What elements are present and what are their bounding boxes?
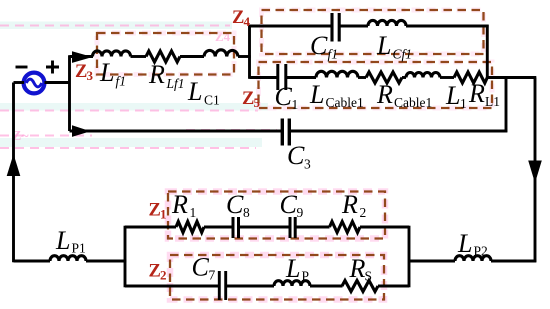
wire source left (14, 81, 25, 84)
resistor R1 (176, 222, 204, 233)
wire C7-LP (226, 285, 274, 288)
svg-text:Lf1: Lf1 (166, 76, 185, 91)
ghost pink halo Z4 (262, 10, 484, 54)
wire LP2 to right edge (491, 260, 536, 263)
svg-text:R: R (468, 79, 485, 108)
svg-text:R: R (148, 60, 165, 89)
svg-text:8: 8 (243, 205, 250, 220)
resistor RS (342, 281, 378, 292)
wire C1-LCable1 (286, 76, 317, 79)
capacitor C1 (278, 64, 286, 90)
ghost pink dashed line top (0, 25, 230, 27)
ghost pink halo Z5 (259, 62, 493, 108)
wire LP-RS (310, 285, 343, 288)
resistor R2 (330, 222, 361, 233)
svg-text:R: R (376, 80, 393, 109)
svg-text:Cf1: Cf1 (393, 47, 413, 62)
box Z4 (262, 10, 484, 54)
resistor RL1 (454, 72, 487, 83)
resistor RLf1 (146, 51, 180, 62)
wire join vertical (408, 226, 411, 288)
wire Z4 right vertical (486, 25, 489, 79)
ghost pink dashed line mid2 (0, 130, 277, 136)
capacitor C3 (282, 119, 289, 146)
wire R1-C8 (204, 226, 233, 229)
arrow down right (528, 161, 542, 184)
wire C3 riser (505, 76, 508, 132)
inductor LP2 (455, 256, 491, 261)
wire LCf1 right (406, 25, 489, 28)
ghost cyan band mid1 (0, 103, 268, 111)
svg-text:f1: f1 (328, 47, 339, 62)
wire Z5 rail left (250, 76, 279, 79)
svg-text:L: L (285, 254, 300, 283)
wire split vertical (124, 226, 127, 288)
arrow up left (7, 154, 21, 176)
ghost pink dashed line mid3 (0, 147, 256, 149)
svg-text:P: P (302, 269, 310, 284)
svg-text:S: S (365, 269, 373, 284)
inductor LP (274, 281, 310, 286)
svg-text:L1: L1 (485, 94, 500, 109)
ghost cyan band top (0, 22, 232, 30)
wire LP1 to split (86, 260, 126, 263)
box Z2 (170, 255, 384, 300)
wire R2 to join (360, 226, 409, 229)
svg-text:C: C (287, 141, 305, 170)
label plus (46, 61, 59, 74)
svg-text:C1: C1 (204, 93, 220, 108)
wire RS to join (378, 285, 409, 288)
svg-text:Cable1: Cable1 (326, 95, 364, 110)
inductor LC1 (204, 50, 238, 57)
wire bottom left rail (14, 260, 51, 263)
svg-text:1: 1 (292, 97, 299, 112)
wire L1-RL1 (440, 76, 454, 79)
wire junction vertical left (248, 25, 251, 79)
svg-text:Z: Z (232, 8, 244, 28)
svg-text:Cable1: Cable1 (394, 95, 432, 110)
wire lower rail to C3 (90, 130, 283, 133)
box Z1 (168, 192, 385, 239)
svg-text:L: L (457, 229, 472, 258)
svg-text:R: R (171, 190, 188, 219)
svg-text:2: 2 (360, 205, 367, 220)
box Z3 (97, 33, 234, 75)
wire left vertical (12, 83, 15, 263)
arrow right top (72, 51, 93, 63)
ghost pink halo Z2 (170, 255, 384, 300)
wire Cf1-LCf1 (339, 25, 368, 28)
wire C8-C9 (239, 226, 291, 229)
svg-text:C: C (226, 190, 244, 219)
svg-text:7: 7 (209, 268, 216, 283)
inductor LCable1 (316, 71, 358, 77)
ghost pink halo Z3 (97, 33, 234, 75)
wire bottom branch left (125, 285, 219, 288)
wire Z4 rail left (250, 25, 333, 28)
wire LCable1-RCable1 (358, 76, 366, 79)
svg-text:Z: Z (149, 201, 161, 221)
wire out rail (409, 260, 455, 263)
svg-text:R: R (349, 254, 366, 283)
svg-text:P1: P1 (72, 241, 86, 256)
svg-text:C: C (275, 82, 293, 111)
svg-text:C: C (280, 190, 298, 219)
svg-text:C: C (192, 253, 210, 282)
wire Lf1-RLf1 (131, 55, 147, 58)
svg-text:3: 3 (87, 68, 94, 83)
ac source sine (26, 79, 42, 87)
svg-text:4: 4 (244, 14, 251, 29)
wire C3 right (289, 130, 507, 133)
capacitor C8 (233, 217, 239, 238)
svg-text:Z: Z (149, 262, 161, 282)
capacitor C9 (290, 217, 295, 238)
wire RCable1-L1 (402, 76, 406, 79)
ghost pink halo Z1 (168, 192, 385, 239)
ac source V1 circle (24, 73, 45, 94)
wire LC1 to junction (238, 55, 251, 58)
svg-text:f1: f1 (116, 74, 127, 89)
inductor Lf1 (93, 51, 131, 57)
wire RLf1-LC1 (180, 55, 204, 58)
capacitor C7 (219, 271, 225, 300)
svg-text:P2: P2 (474, 244, 488, 259)
svg-text:Z: Z (75, 62, 87, 82)
wire lower rail left (70, 130, 94, 133)
svg-text:9: 9 (297, 205, 304, 220)
svg-text:L: L (187, 77, 202, 106)
ghost cyan band mid2 (0, 138, 262, 147)
resistor RCable1 (366, 72, 402, 83)
wire C9-R2 (295, 226, 330, 229)
svg-text:L: L (445, 81, 460, 110)
svg-text:1: 1 (460, 96, 467, 111)
box Z5 (259, 62, 493, 108)
svg-text:1: 1 (190, 205, 197, 220)
wire top branch left (125, 226, 176, 229)
svg-text:L: L (309, 80, 324, 109)
capacitor Cf1 (332, 13, 339, 42)
wire source right (45, 55, 71, 131)
label minus (16, 66, 28, 69)
wire Z3 rail (70, 55, 94, 58)
arrow right lower (72, 125, 91, 137)
svg-text:R: R (341, 190, 358, 219)
inductor LCf1 (368, 20, 406, 26)
svg-text:L: L (55, 226, 70, 255)
svg-text:2: 2 (160, 268, 167, 283)
svg-text:5: 5 (254, 95, 261, 110)
svg-text:1: 1 (160, 207, 167, 222)
svg-text:Z: Z (242, 89, 254, 109)
inductor L1 (406, 72, 440, 77)
svg-text:3: 3 (304, 157, 311, 172)
wire junction to right edge (486, 78, 536, 263)
svg-text:C: C (310, 31, 328, 60)
inductor LP1 (50, 256, 86, 261)
svg-text:L: L (376, 31, 391, 60)
svg-text:L: L (99, 58, 114, 87)
ghost pink dashed line mid1 (0, 110, 258, 112)
